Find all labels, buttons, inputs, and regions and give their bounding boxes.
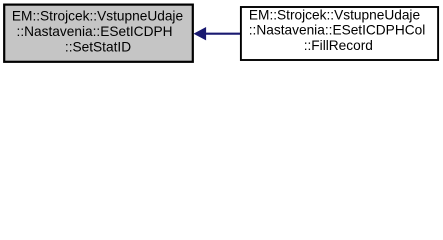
svg-text:::FillRecord: ::FillRecord [304, 38, 373, 53]
node FillRecord (caller) [241, 7, 438, 60]
edge arrow (caller -> current) [195, 28, 241, 40]
node SetStatID (current node, grey) [4, 5, 193, 62]
svg-text:::Nastavenia::ESetICDPH: ::Nastavenia::ESetICDPH [17, 24, 173, 39]
svg-text:EM::Strojcek::VstupneUdaje: EM::Strojcek::VstupneUdaje [12, 8, 183, 23]
svg-text:::Nastavenia::ESetICDPHCol: ::Nastavenia::ESetICDPHCol [249, 23, 426, 38]
svg-text:EM::Strojcek::VstupneUdaje: EM::Strojcek::VstupneUdaje [249, 7, 420, 22]
svg-text:::SetStatID: ::SetStatID [65, 40, 131, 55]
